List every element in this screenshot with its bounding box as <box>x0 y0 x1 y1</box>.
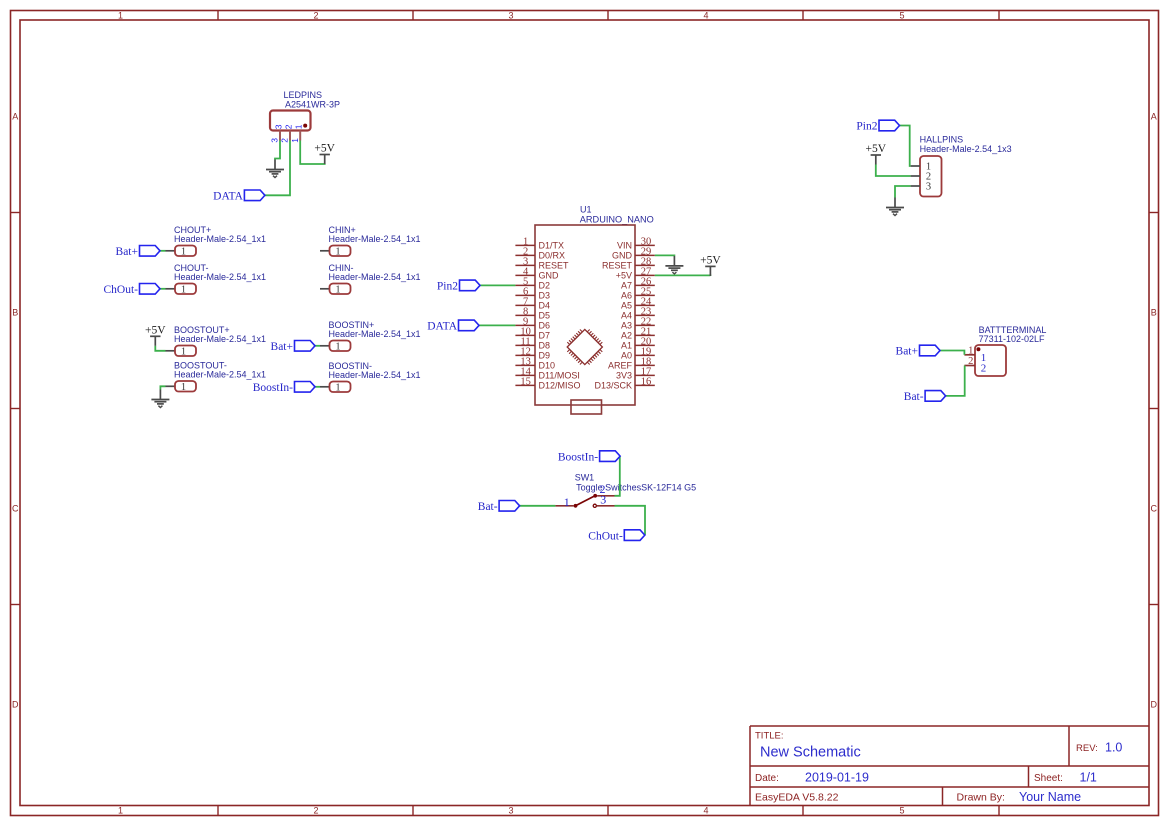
svg-text:3: 3 <box>508 10 513 20</box>
svg-text:1: 1 <box>290 138 300 143</box>
svg-text:1: 1 <box>335 341 340 352</box>
net flag Pin2 (U1) <box>437 280 480 292</box>
LEDPINS pin1 dot <box>303 124 307 128</box>
U1 pin 23 (A4) <box>621 307 655 321</box>
svg-text:1.0: 1.0 <box>1105 741 1122 755</box>
svg-text:Sheet:: Sheet: <box>1034 773 1063 784</box>
svg-text:1: 1 <box>181 382 186 393</box>
svg-text:1: 1 <box>294 124 304 129</box>
LEDPINS pin 3 <box>270 124 284 142</box>
header BOOSTIN- <box>320 361 421 394</box>
svg-text:Toggle SwitchesSK-12F14 G5: Toggle SwitchesSK-12F14 G5 <box>576 482 696 492</box>
U1 USB notch <box>571 400 602 414</box>
svg-text:3: 3 <box>270 138 280 143</box>
U1 pin 7 (D4) <box>515 297 550 311</box>
wire +5V to BOOSTOUT+ <box>155 346 165 351</box>
svg-text:ChOut-: ChOut- <box>588 530 623 542</box>
U1 pin 12 (D9) <box>515 347 550 361</box>
svg-text:Header-Male-2.54_1x1: Header-Male-2.54_1x1 <box>174 272 266 282</box>
net flag ChOut- <box>104 284 161 296</box>
svg-text:A: A <box>1151 111 1157 121</box>
connector LEDPINS (A2541WR-3P) <box>270 90 340 131</box>
U1 pin 26 (A7) <box>621 277 655 291</box>
net flag BoostIn- (BOOSTIN-) <box>253 382 315 394</box>
svg-text:VIN: VIN <box>617 240 632 250</box>
U1 pin 8 (D5) <box>515 307 550 321</box>
U1 pin 21 (A2) <box>621 327 655 341</box>
wire U1 +5V to power <box>655 274 711 277</box>
switch SW1 Toggle SwitchesSK-12F14 G5 <box>575 473 696 493</box>
net flag Bat- (BATTTERMINAL) <box>904 391 946 403</box>
wire Pin2 to HALLPINS 1 <box>900 126 911 167</box>
svg-text:BoostIn-: BoostIn- <box>558 451 598 463</box>
ground (U1 pin 29) <box>665 256 683 274</box>
svg-text:4: 4 <box>703 806 708 816</box>
U1 pin 20 (A1) <box>621 337 655 351</box>
U1 pin 17 (3V3) <box>616 367 655 381</box>
svg-text:RESET: RESET <box>539 260 570 270</box>
U1 pin 1 (D1/TX) <box>515 237 564 251</box>
svg-text:+5V: +5V <box>145 325 166 337</box>
wire BoostIn- to BOOSTIN- <box>315 386 320 388</box>
power +5V (HALLPINS) <box>866 143 887 164</box>
wire LEDPINS pin2 to DATA <box>265 141 290 196</box>
U1 pin 9 (D6) <box>515 317 550 331</box>
svg-text:B: B <box>12 307 18 317</box>
svg-text:Bat+: Bat+ <box>116 246 138 258</box>
U1 pin 15 (D12/MISO) <box>515 377 580 391</box>
wire DATA to U1 D6 <box>479 324 515 326</box>
svg-text:BoostIn-: BoostIn- <box>253 382 293 394</box>
IC U1 ARDUINO_NANO <box>535 204 654 405</box>
svg-text:D9: D9 <box>539 350 551 360</box>
svg-text:D5: D5 <box>539 310 551 320</box>
svg-text:1: 1 <box>564 495 570 509</box>
svg-text:Date:: Date: <box>755 773 779 784</box>
svg-text:2: 2 <box>283 124 293 129</box>
svg-text:Header-Male-2.54_1x1: Header-Male-2.54_1x1 <box>174 334 266 344</box>
svg-text:DATA: DATA <box>213 190 243 202</box>
U1 pin 3 (RESET) <box>515 257 569 271</box>
header CHIN+ <box>320 225 421 258</box>
svg-text:1: 1 <box>335 284 340 295</box>
ground (HALLPINS) <box>886 198 904 216</box>
U1 pin 25 (A6) <box>621 287 655 301</box>
U1 chip glyph (diamond) <box>567 329 602 364</box>
SW1 pin 2 <box>593 482 614 498</box>
svg-text:Bat-: Bat- <box>478 501 498 513</box>
svg-text:3: 3 <box>273 124 283 129</box>
wire Bat- to SW1 1 <box>520 505 556 507</box>
svg-text:+5V: +5V <box>700 255 721 267</box>
svg-text:REV:: REV: <box>1076 743 1098 754</box>
svg-text:RESET: RESET <box>602 260 633 270</box>
U1 pin 13 (D10) <box>515 357 555 371</box>
svg-text:ChOut-: ChOut- <box>104 284 139 296</box>
wire Pin2 to U1 D2 <box>480 284 515 286</box>
svg-text:A: A <box>12 111 18 121</box>
svg-text:77311-102-02LF: 77311-102-02LF <box>979 334 1045 344</box>
header BOOSTOUT+ <box>166 325 267 358</box>
svg-text:U1: U1 <box>580 204 592 214</box>
svg-text:Header-Male-2.54_1x1: Header-Male-2.54_1x1 <box>329 234 421 244</box>
svg-text:GND: GND <box>612 250 633 260</box>
svg-text:1: 1 <box>181 246 186 257</box>
svg-text:TITLE:: TITLE: <box>755 731 784 742</box>
svg-text:SW1: SW1 <box>575 473 595 483</box>
svg-text:D6: D6 <box>539 320 551 330</box>
HALLPINS pin 3 <box>911 182 932 193</box>
svg-text:A7: A7 <box>621 280 632 290</box>
svg-text:Your Name: Your Name <box>1019 790 1081 804</box>
svg-text:D1/TX: D1/TX <box>539 240 565 250</box>
svg-text:D: D <box>1151 699 1158 709</box>
svg-text:2: 2 <box>313 10 318 20</box>
svg-text:3V3: 3V3 <box>616 370 632 380</box>
svg-text:New Schematic: New Schematic <box>760 745 861 761</box>
svg-text:B: B <box>1151 307 1157 317</box>
svg-text:Header-Male-2.54_1x1: Header-Male-2.54_1x1 <box>329 370 421 380</box>
U1 pin 30 (VIN) <box>617 237 655 251</box>
net flag Bat- (SW1) <box>478 501 520 513</box>
U1 pin 27 (+5V) <box>616 267 655 281</box>
SW1 pin 3 <box>593 493 614 508</box>
svg-text:4: 4 <box>703 10 708 20</box>
svg-text:1: 1 <box>118 806 123 816</box>
svg-text:5: 5 <box>899 806 904 816</box>
wire Bat+ to BOOSTIN+ <box>315 345 320 347</box>
U1 pin 11 (D8) <box>515 337 550 351</box>
svg-text:AREF: AREF <box>608 360 633 370</box>
U1 pin 18 (AREF) <box>608 357 655 371</box>
title block <box>750 726 1149 806</box>
svg-text:A2: A2 <box>621 330 632 340</box>
svg-text:A5: A5 <box>621 300 632 310</box>
wire Bat- to BATTTERMINAL 2 <box>946 366 965 396</box>
U1 pin 14 (D11/MOSI) <box>515 367 579 381</box>
U1 pin 6 (D3) <box>515 287 550 301</box>
net flag ChOut- (SW1) <box>588 530 645 543</box>
svg-text:1: 1 <box>335 246 340 257</box>
U1 bottom edge through notch <box>571 404 602 406</box>
wire SW1 3 to ChOut- <box>615 506 646 535</box>
svg-text:5: 5 <box>899 10 904 20</box>
U1 pin 5 (D2) <box>515 277 550 291</box>
svg-text:+5V: +5V <box>866 143 887 155</box>
svg-text:A2541WR-3P: A2541WR-3P <box>285 99 340 109</box>
power +5V <box>145 325 166 346</box>
net flag Bat+ (BATTTERMINAL) <box>896 345 940 357</box>
svg-text:Header-Male-2.54_1x1: Header-Male-2.54_1x1 <box>174 370 266 380</box>
svg-text:3: 3 <box>600 493 606 507</box>
SW1 lever <box>577 496 595 505</box>
svg-text:ARDUINO_NANO: ARDUINO_NANO <box>580 214 654 224</box>
svg-text:D11/MOSI: D11/MOSI <box>539 370 580 380</box>
svg-text:D10: D10 <box>539 360 556 370</box>
LEDPINS pin 1 <box>290 124 304 142</box>
U1 pin 29 (GND) <box>612 247 655 261</box>
svg-text:3: 3 <box>508 806 513 816</box>
header CHOUT- <box>166 263 267 296</box>
svg-text:2: 2 <box>280 138 290 143</box>
wire Bat+ to BATTTERMINAL 1 <box>940 351 964 355</box>
svg-text:D0/RX: D0/RX <box>539 250 566 260</box>
LEDPINS pin 2 <box>280 124 294 142</box>
svg-text:GND: GND <box>539 270 560 280</box>
svg-text:1: 1 <box>181 346 186 357</box>
U1 pin 2 (D0/RX) <box>515 247 565 261</box>
U1 pin 28 (RESET) <box>602 257 655 271</box>
wire U1 GND to ground <box>655 254 675 257</box>
wire +5V to HALLPINS 2 <box>876 165 911 177</box>
svg-text:1/1: 1/1 <box>1080 771 1097 785</box>
BATTTERMINAL pin 2 <box>964 356 986 374</box>
ground <box>151 390 169 408</box>
SW1 pin 1 <box>555 495 577 509</box>
svg-text:Bat-: Bat- <box>904 391 924 403</box>
svg-text:3: 3 <box>926 182 931 193</box>
svg-text:D3: D3 <box>539 290 551 300</box>
svg-text:Header-Male-2.54_1x1: Header-Male-2.54_1x1 <box>329 329 421 339</box>
svg-text:A6: A6 <box>621 290 632 300</box>
wire ChOut- to CHOUT- <box>160 288 166 290</box>
connector P1 BATTTERMINAL (77311-102-02LF) <box>975 325 1046 376</box>
svg-text:1: 1 <box>335 382 340 393</box>
header CHIN- <box>320 263 421 296</box>
svg-text:D4: D4 <box>539 300 551 310</box>
U1 pin 22 (A3) <box>621 317 655 331</box>
svg-text:Pin2: Pin2 <box>856 120 877 132</box>
svg-text:2: 2 <box>313 806 318 816</box>
svg-text:D13/SCK: D13/SCK <box>594 380 632 390</box>
U1 pin 24 (A5) <box>621 297 655 311</box>
power +5V <box>314 143 335 164</box>
svg-text:D: D <box>12 699 19 709</box>
net flag DATA (U1) <box>427 320 479 332</box>
U1 pin 19 (A0) <box>621 347 655 361</box>
svg-text:Header-Male-2.54_1x1: Header-Male-2.54_1x1 <box>174 234 266 244</box>
net flag BoostIn- (SW1) <box>558 451 620 464</box>
net flag Bat+ (BOOSTIN+) <box>271 341 315 353</box>
net flag DATA <box>213 190 265 202</box>
HALLPINS pin 1 <box>911 162 932 173</box>
svg-text:Pin2: Pin2 <box>437 280 458 292</box>
svg-text:C: C <box>12 503 19 513</box>
svg-text:A1: A1 <box>621 340 632 350</box>
svg-text:A0: A0 <box>621 350 632 360</box>
U1 pin 4 (GND) <box>515 267 559 281</box>
svg-text:+5V: +5V <box>616 270 632 280</box>
net flag Bat+ <box>116 246 160 258</box>
svg-text:EasyEDA V5.8.22: EasyEDA V5.8.22 <box>755 792 839 804</box>
connector HALLPINS (Header-Male-2.54_1x3) <box>920 135 1012 197</box>
svg-text:D8: D8 <box>539 340 551 350</box>
U1 pin 16 (D13/SCK) <box>594 377 654 391</box>
svg-text:1: 1 <box>118 10 123 20</box>
svg-text:Header-Male-2.54_1x3: Header-Male-2.54_1x3 <box>920 144 1012 154</box>
power +5V (U1 pin 27) <box>700 255 721 276</box>
wire HALLPINS 3 to ground <box>895 186 911 198</box>
svg-text:D2: D2 <box>539 280 551 290</box>
svg-text:Header-Male-2.54_1x1: Header-Male-2.54_1x1 <box>329 272 421 282</box>
HALLPINS pin 2 <box>911 172 932 183</box>
svg-text:Bat+: Bat+ <box>896 346 918 358</box>
header BOOSTIN+ <box>320 320 421 353</box>
svg-text:1: 1 <box>968 345 973 356</box>
wire Bat+ to CHOUT+ <box>160 250 166 252</box>
svg-text:1: 1 <box>181 284 186 295</box>
svg-text:C: C <box>1151 503 1158 513</box>
wire SW1 2 to BoostIn- <box>615 456 620 496</box>
svg-text:2: 2 <box>968 356 973 367</box>
svg-text:15: 15 <box>520 377 531 388</box>
header BOOSTOUT- <box>166 360 267 393</box>
U1 pin 10 (D7) <box>515 327 550 341</box>
svg-text:D12/MISO: D12/MISO <box>539 380 581 390</box>
wire BOOSTOUT- to ground <box>160 386 165 389</box>
BATTTERMINAL pin 1 <box>964 345 986 364</box>
svg-text:2: 2 <box>981 362 987 374</box>
wire LEDPINS pin3 to ground <box>275 141 280 160</box>
ground <box>266 160 284 178</box>
svg-text:DATA: DATA <box>427 320 457 332</box>
svg-text:2019-01-19: 2019-01-19 <box>805 771 869 785</box>
svg-text:A3: A3 <box>621 320 632 330</box>
header CHOUT+ <box>166 225 267 258</box>
svg-text:Bat+: Bat+ <box>271 341 293 353</box>
svg-text:+5V: +5V <box>314 143 335 155</box>
svg-text:16: 16 <box>641 377 652 388</box>
net flag Pin2 (HALLPINS) <box>856 120 899 132</box>
svg-text:D7: D7 <box>539 330 551 340</box>
svg-text:Drawn By:: Drawn By: <box>957 792 1005 804</box>
wire LEDPINS pin1 to +5V <box>300 141 325 165</box>
svg-text:A4: A4 <box>621 310 632 320</box>
